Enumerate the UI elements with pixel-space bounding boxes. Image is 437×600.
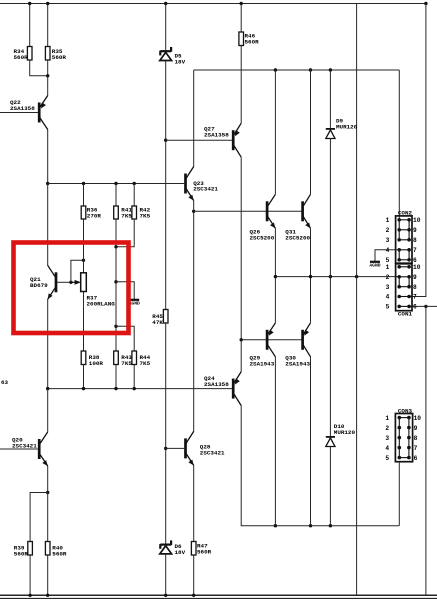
connector CON1 [386, 264, 421, 311]
svg-text:7K5: 7K5 [140, 212, 151, 219]
wire Q26 emitter down [274, 228, 276, 276]
svg-text:200RLANG: 200RLANG [87, 300, 116, 307]
label Q30 [285, 355, 310, 368]
label R40 [52, 545, 67, 558]
wire Q30 emitter up [310, 277, 312, 323]
svg-text:2SC3421: 2SC3421 [12, 442, 37, 449]
wire D9 top [329, 70, 331, 128]
svg-text:3: 3 [385, 435, 389, 442]
wire R46 top [240, 4, 242, 33]
wire VAS line [193, 211, 195, 431]
resistor R36 [81, 206, 86, 219]
junction Q27 base node [164, 139, 167, 142]
ground flag CON2 AGND [369, 262, 380, 269]
svg-text:6: 6 [413, 257, 417, 264]
svg-text:2SA1358: 2SA1358 [204, 381, 229, 388]
junction out b [309, 275, 312, 278]
resistor R35 [45, 47, 50, 61]
transistor Q26 [267, 194, 275, 228]
wire R47 bottom [193, 555, 195, 595]
highlight red rectangle [14, 243, 129, 334]
wire R40 bottom [47, 555, 49, 595]
label R47 [197, 543, 212, 556]
resistor R34 [27, 47, 32, 61]
junction rail388 c [114, 387, 117, 390]
junction rail183 R42 [133, 182, 136, 185]
potentiometer R37 [81, 273, 87, 292]
wire Q29 collector down [274, 357, 276, 526]
svg-text:CON3: CON3 [398, 407, 413, 414]
label R39 [14, 545, 29, 558]
svg-text:18V: 18V [175, 549, 186, 556]
wire AGND branch [116, 282, 134, 300]
svg-text:2SC3421: 2SC3421 [193, 186, 218, 193]
wire CON3 down [398, 462, 400, 526]
label D5 [175, 53, 186, 66]
wire Q21 base stub [57, 281, 71, 283]
junction Q28 base node [164, 447, 167, 450]
svg-text:8: 8 [414, 435, 418, 442]
svg-text:BD679: BD679 [30, 282, 48, 289]
wire R34 bottom join [30, 60, 48, 76]
wire to R45 [165, 140, 167, 309]
label R44 [140, 354, 151, 367]
wire D9 bottom [329, 139, 331, 277]
label D6 [175, 543, 186, 556]
wire R43 bottom [115, 365, 117, 389]
transistor Q22 [39, 96, 48, 130]
junction out d [355, 275, 358, 278]
wire Q22col to Q21col [47, 184, 49, 266]
svg-text:6: 6 [413, 304, 417, 311]
svg-text:560R: 560R [14, 54, 29, 61]
svg-text:8: 8 [413, 237, 417, 244]
wire pin6 down [425, 306, 427, 595]
junction R39 bot [28, 594, 31, 597]
junction AGND branch node [114, 280, 117, 283]
junction R34/R35 join [46, 74, 49, 77]
transistor Q21 [48, 265, 56, 299]
wire Q29 emitter up [274, 277, 276, 323]
resistor R44 [132, 351, 137, 365]
junction R47 bot [192, 594, 195, 597]
resistor R41 [114, 206, 119, 219]
wire Q31 collector up [310, 70, 312, 194]
junction rail70 D9 [329, 68, 332, 71]
svg-text:2SA1358: 2SA1358 [10, 105, 35, 112]
svg-text:1: 1 [385, 415, 389, 422]
wire Q22 base [0, 112, 38, 114]
svg-text:2SA1358: 2SA1358 [204, 131, 229, 138]
label R42 [140, 207, 151, 220]
junction lower base rail node [240, 338, 243, 341]
svg-text:4: 4 [386, 294, 390, 301]
wire to D6 [165, 448, 167, 543]
wire bus to CON2 [398, 70, 400, 220]
transistor Q29 [267, 323, 275, 357]
svg-text:560R: 560R [52, 54, 67, 61]
wire top V+ rail [0, 3, 426, 5]
wire R41 bottom [115, 219, 117, 351]
svg-text:CON1: CON1 [398, 311, 413, 318]
label CON3 [398, 407, 413, 414]
svg-text:18V: 18V [175, 58, 186, 65]
svg-text:47K: 47K [152, 319, 163, 326]
junction R37 top node [82, 259, 85, 262]
wire D5 top [165, 4, 167, 51]
junction rail70 Q26 [274, 68, 277, 71]
connector CON3 [385, 414, 421, 462]
svg-text:2SC3421: 2SC3421 [200, 449, 225, 456]
transistor Q28 [186, 431, 194, 465]
transistor Q30 [303, 323, 311, 357]
wire upper collector bus [194, 69, 400, 71]
zener diode D5 [160, 47, 172, 61]
wire D10 bottom [329, 447, 331, 526]
wire D5 bottom [165, 61, 167, 141]
junction D6 bot [164, 594, 167, 597]
junction rail183 R36 [82, 182, 85, 185]
ground flag mid AGND [129, 300, 140, 307]
svg-text:560R: 560R [245, 38, 260, 45]
svg-text:5: 5 [385, 455, 389, 462]
label R46 [245, 33, 260, 46]
svg-text:2SA1943: 2SA1943 [250, 360, 275, 367]
wire Q30 collector down [310, 357, 312, 526]
junction rail388 b [82, 387, 85, 390]
svg-text:560R: 560R [52, 550, 67, 557]
transistor Q20 [39, 432, 48, 466]
label net 63 [1, 379, 9, 386]
wire R36 top [83, 184, 85, 207]
wire output rail [275, 276, 399, 278]
wire Q23 emitter down [193, 201, 195, 212]
svg-text:9: 9 [413, 227, 417, 234]
wire Q22 collector down [47, 130, 49, 184]
wire R45 bottom [165, 323, 167, 448]
svg-text:3: 3 [386, 284, 390, 291]
label CON2 [398, 210, 413, 217]
wire Q20 emitter down [47, 466, 49, 493]
wire D10 top [329, 277, 331, 436]
resistor R40 [45, 542, 50, 556]
svg-text:10: 10 [413, 217, 421, 224]
label Q31 [285, 229, 310, 242]
svg-text:6: 6 [414, 455, 418, 462]
label Q21 [30, 276, 48, 289]
wire R42 bottom elbow [116, 219, 134, 247]
junction out a [274, 275, 277, 278]
wire Q27 base [166, 139, 232, 141]
junction R41/R42 join [114, 245, 117, 248]
svg-text:10: 10 [414, 415, 422, 422]
label R38 [89, 354, 104, 367]
svg-text:MUR120: MUR120 [334, 429, 356, 436]
junction pin6 node [424, 305, 427, 308]
wire R37-R38 [83, 292, 85, 352]
svg-text:CON2: CON2 [398, 210, 413, 217]
wire CON2 pin4 to AGND [375, 250, 399, 261]
svg-text:63: 63 [1, 379, 9, 386]
svg-text:1: 1 [386, 217, 390, 224]
connector CON2 [386, 216, 421, 264]
junction rail525 D10 [329, 524, 332, 527]
svg-text:2: 2 [386, 227, 390, 234]
transistor Q23 [186, 167, 194, 201]
label R43 [121, 354, 132, 367]
wire Q20 base [0, 448, 38, 450]
wire pin6 out right [409, 305, 437, 307]
svg-text:7: 7 [414, 445, 418, 452]
junction Q20 emitter node [46, 491, 49, 494]
svg-text:MUR120: MUR120 [336, 123, 358, 130]
junction rail388 d [133, 387, 136, 390]
label Q28 [200, 444, 225, 457]
label Q29 [250, 355, 275, 368]
resistor R39 [28, 542, 33, 556]
label Q27 [204, 126, 229, 139]
wire Q28 emitter down [193, 465, 195, 541]
svg-text:7K5: 7K5 [140, 360, 151, 367]
wire R35 top [47, 4, 49, 47]
wire lower base rail [241, 339, 302, 341]
wire R44 bottom [133, 365, 135, 389]
svg-text:4: 4 [385, 445, 389, 452]
label R34 [14, 48, 29, 61]
wire branch to R39 [30, 493, 48, 542]
diode D10 [326, 437, 335, 447]
junction top right rail [424, 2, 427, 5]
wire Q23 collector up [193, 70, 195, 167]
junction Q21 base node [69, 281, 72, 284]
wire R35 bottom [47, 60, 49, 96]
wiper arrow R37 [71, 281, 79, 283]
svg-text:560R: 560R [197, 548, 212, 555]
wire R36-R37 [83, 219, 85, 273]
svg-text:7K5: 7K5 [121, 212, 132, 219]
svg-text:7: 7 [413, 247, 417, 254]
wire R42 top [133, 184, 135, 207]
svg-text:7K5: 7K5 [121, 360, 132, 367]
wire Q26 collector up [274, 70, 276, 194]
label Q20 [12, 437, 37, 450]
wire V+ to CON1 pin7 [409, 4, 426, 297]
junction R44 branch node [114, 325, 117, 328]
svg-text:9: 9 [413, 274, 417, 281]
label D9 [336, 118, 358, 131]
transistor Q27 [233, 123, 241, 157]
wire bottom V- rail [0, 594, 437, 596]
wire R38 bottom [83, 365, 85, 389]
wire Q24 collector down [241, 406, 399, 526]
wire upper base rail [194, 210, 303, 212]
junction R34 top rail [28, 2, 31, 5]
svg-text:AGND: AGND [369, 263, 380, 269]
svg-text:2SA1943: 2SA1943 [285, 360, 310, 367]
svg-text:4: 4 [386, 247, 390, 254]
wire mid-right vertical [356, 4, 358, 596]
junction rail525 Q30 [309, 524, 312, 527]
label Q22 [10, 99, 35, 112]
svg-text:560R: 560R [14, 550, 29, 557]
junction rail525 Q29 [274, 524, 277, 527]
wire D6 bottom [165, 554, 167, 595]
resistor R47 [191, 542, 196, 556]
wire R41 top [115, 184, 117, 207]
svg-text:1: 1 [386, 264, 390, 271]
wire rail bias lower [48, 388, 233, 390]
junction rail388 a [46, 387, 49, 390]
svg-text:100R: 100R [89, 360, 104, 367]
label R45 [152, 313, 163, 326]
wire R46 to Q27 [240, 46, 242, 124]
svg-text:10: 10 [413, 264, 421, 271]
label Q26 [250, 229, 275, 242]
wire R44 branch [116, 326, 134, 351]
svg-text:9: 9 [414, 425, 418, 432]
wire rail bias upper [48, 183, 185, 185]
svg-text:5: 5 [386, 257, 390, 264]
wire Q28 base [166, 447, 185, 449]
zener diode D6 [160, 540, 172, 554]
label D10 [334, 423, 356, 436]
svg-text:2SC5200: 2SC5200 [285, 234, 310, 241]
resistor R38 [81, 351, 86, 365]
junction zener chain top [164, 2, 167, 5]
resistor R46 [239, 32, 244, 46]
resistor R42 [132, 206, 137, 219]
junction R46 top rail [240, 2, 243, 5]
label R35 [52, 48, 67, 61]
junction upper drive node [192, 210, 195, 213]
label Q23 [193, 180, 218, 193]
junction R35 top rail [46, 2, 49, 5]
junction R40 bot [46, 594, 49, 597]
wire R37 wiper loop [71, 260, 84, 282]
svg-text:3: 3 [386, 237, 390, 244]
diode D9 [326, 129, 335, 139]
junction out c [329, 275, 332, 278]
svg-text:2: 2 [386, 274, 390, 281]
wire R39 bottom [29, 555, 31, 595]
label R41 [121, 207, 132, 220]
transistor Q31 [303, 194, 311, 228]
wire R40 top [47, 493, 49, 542]
svg-text:8: 8 [413, 284, 417, 291]
wire R34 top [29, 4, 31, 47]
svg-text:270R: 270R [87, 212, 102, 219]
label Q24 [204, 375, 229, 388]
transistor Q24 [233, 372, 241, 406]
junction node rail183 left [46, 182, 49, 185]
wire bottom page border [0, 597, 437, 599]
junction rail70 Q31 [309, 68, 312, 71]
svg-text:5: 5 [386, 304, 390, 311]
svg-text:2SC5200: 2SC5200 [250, 234, 275, 241]
resistor R45 [163, 310, 168, 324]
wire Q31 emitter down [310, 228, 312, 276]
wire Q27 collector down [240, 157, 242, 371]
wire Q21 emitter down [47, 299, 49, 389]
resistor R43 [114, 351, 119, 365]
wire Q20 collector up [47, 389, 49, 432]
label CON1 [398, 311, 413, 318]
label R36 [87, 207, 102, 220]
label R37 [87, 295, 116, 308]
svg-text:7: 7 [413, 294, 417, 301]
junction rail183 R41 [114, 182, 117, 185]
svg-text:2: 2 [385, 425, 389, 432]
